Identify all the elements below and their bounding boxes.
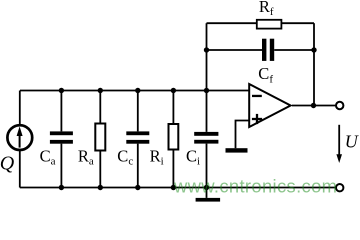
op-amp U1 <box>249 84 290 127</box>
capacitor Ci <box>194 132 218 144</box>
bottom terminal circle <box>336 184 343 191</box>
resistor Ri <box>169 124 179 150</box>
wire Ci branch <box>206 91 208 188</box>
svg-text:U: U <box>345 132 359 152</box>
wire feedback top <box>207 22 315 24</box>
output terminal circle <box>336 102 343 109</box>
wire Cc branch <box>137 91 139 188</box>
ground bottom rail <box>196 198 221 202</box>
node dots bottom rail <box>59 185 210 190</box>
wire Ri branch <box>172 91 174 188</box>
svg-text:www.cntronics.com: www.cntronics.com <box>173 176 337 197</box>
wire bottom rail <box>20 187 336 189</box>
node dots Cf wire <box>204 47 317 52</box>
node dot output <box>311 103 316 108</box>
wire ground 2 stem <box>206 188 208 198</box>
resistor Ra <box>95 124 105 151</box>
current source Q <box>7 125 32 150</box>
wire Q top <box>19 91 21 125</box>
arrow U <box>336 125 342 163</box>
wire feedback left vertical <box>206 23 208 90</box>
wire Q bottom <box>19 151 21 188</box>
capacitor Ca <box>50 131 73 143</box>
svg-text:Q: Q <box>0 153 15 175</box>
op-amp minus sign <box>252 95 262 97</box>
wire output <box>292 105 336 107</box>
wire op-amp plus input to ground <box>236 121 249 149</box>
node dots top bus <box>59 88 210 93</box>
wire top bus <box>20 90 249 92</box>
wire feedback right vertical <box>313 23 315 105</box>
wire Ra branch <box>99 91 101 188</box>
capacitor Cc <box>126 131 149 143</box>
wire Cf horizontal <box>207 49 315 51</box>
capacitor Cf <box>262 39 274 61</box>
ground op-amp plus <box>226 148 248 152</box>
wire Ca branch <box>60 91 62 188</box>
resistor Rf <box>257 20 282 29</box>
op-amp plus sign <box>252 114 262 124</box>
